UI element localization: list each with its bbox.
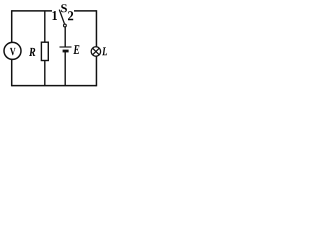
wire battery branch lower	[64, 51, 66, 85]
label 2	[68, 11, 73, 20]
wire right border	[95, 10, 97, 86]
wire top-right (from switch contact 2)	[74, 10, 96, 12]
wire bottom	[12, 85, 97, 87]
battery E long plate	[60, 46, 72, 48]
battery E short plate	[63, 50, 69, 53]
lamp L cross stroke 1	[93, 48, 99, 54]
resistor R box	[41, 42, 48, 60]
switch S blade	[59, 10, 64, 24]
label R	[29, 48, 35, 56]
label L	[102, 47, 107, 55]
label E	[73, 45, 79, 54]
voltmeter V letter	[10, 48, 16, 55]
label 1	[53, 11, 58, 20]
wire left border	[11, 10, 13, 86]
label S	[61, 4, 67, 12]
wire top-left (to switch contact 1)	[12, 10, 52, 12]
lamp L circle	[91, 47, 100, 56]
lamp L cross stroke 2	[93, 48, 99, 54]
wire battery branch upper	[64, 27, 66, 47]
switch S pivot	[64, 24, 67, 27]
wire resistor R branch	[44, 11, 46, 86]
voltmeter V circle	[4, 42, 21, 59]
